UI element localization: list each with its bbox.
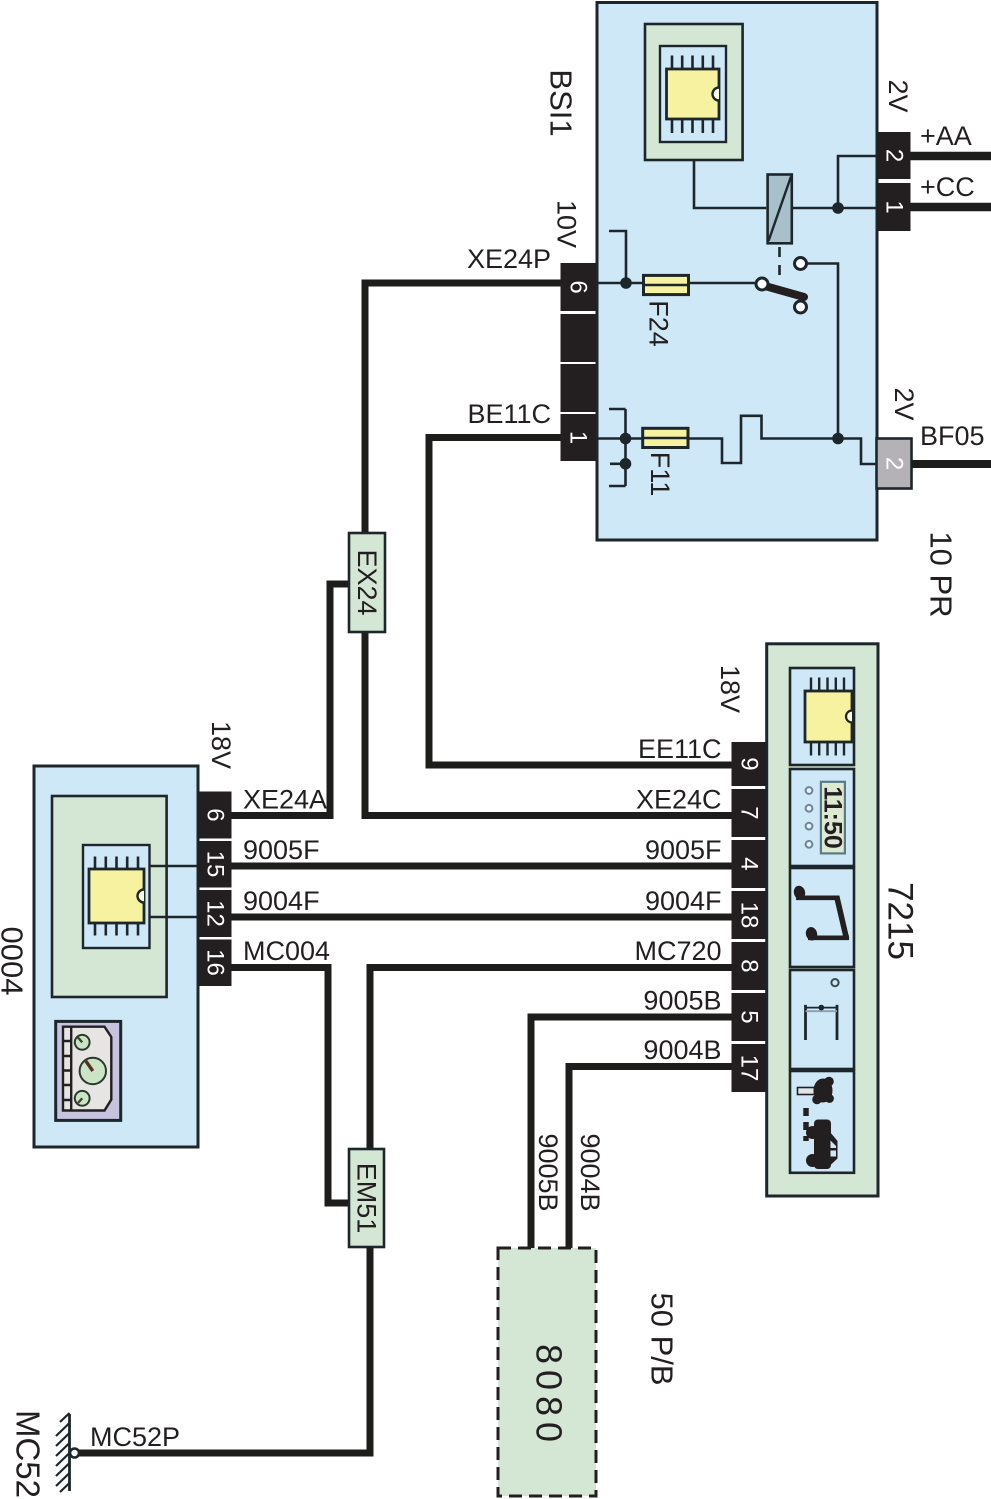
svg-text:11:50: 11:50 xyxy=(819,786,847,849)
wire 9005B xyxy=(531,1017,732,1248)
svg-text:17: 17 xyxy=(735,1055,762,1082)
wire F24 branch line xyxy=(596,282,756,285)
node on F24 line xyxy=(620,277,632,289)
svg-text:16: 16 xyxy=(201,949,228,976)
wire switch to BF05 node xyxy=(807,264,838,439)
svg-text:2V: 2V xyxy=(883,79,913,112)
svg-text:5: 5 xyxy=(735,1010,762,1023)
svg-text:XE24P: XE24P xyxy=(467,244,551,274)
svg-text:8080: 8080 xyxy=(529,1344,570,1448)
wire IC to pin 12 xyxy=(150,916,199,919)
svg-text:EM51: EM51 xyxy=(352,1163,382,1234)
svg-text:50 P/B: 50 P/B xyxy=(645,1292,680,1385)
node at switch/BF05 junction xyxy=(832,433,844,445)
svg-text:+AA: +AA xyxy=(920,121,972,151)
svg-text:4: 4 xyxy=(735,857,762,870)
ECU BSI1 body xyxy=(597,3,877,541)
svg-text:MC52: MC52 xyxy=(10,1410,47,1498)
svg-text:12: 12 xyxy=(201,900,228,927)
relay coil xyxy=(768,175,792,244)
IC chip inside BSI1 xyxy=(645,24,743,160)
wire 9004F xyxy=(232,914,732,921)
clock display icon xyxy=(790,769,854,866)
wire F11 line with staircase to BF05 xyxy=(596,416,877,464)
splice EX24 xyxy=(349,533,385,632)
svg-text:6: 6 xyxy=(565,280,592,293)
svg-text:2V: 2V xyxy=(889,387,919,420)
connector 2V block on BSI1 right xyxy=(877,132,911,231)
svg-text:9005F: 9005F xyxy=(243,835,320,865)
gauge icon inside 0004 xyxy=(56,1021,121,1120)
wire BF05 output xyxy=(912,460,991,468)
wire from IC to relay coil xyxy=(694,160,766,208)
svg-text:MC004: MC004 xyxy=(243,936,330,966)
fuse F24 xyxy=(644,275,689,294)
F11 tap stubs xyxy=(609,409,626,486)
wire MC720 to EM51 xyxy=(370,968,732,1150)
svg-text:MC720: MC720 xyxy=(634,936,721,966)
svg-text:BE11C: BE11C xyxy=(467,399,551,429)
fuse F11 xyxy=(643,428,688,447)
wire +AA xyxy=(911,152,991,161)
wire XE24A from EX24 to 0004 pin 6 xyxy=(232,584,350,816)
svg-text:2: 2 xyxy=(881,149,908,162)
node on F11 line xyxy=(620,433,632,445)
svg-text:F11: F11 xyxy=(645,452,675,497)
chime music note icon xyxy=(790,868,854,967)
F24 tap stub xyxy=(609,231,626,283)
svg-text:0004: 0004 xyxy=(0,927,30,996)
svg-text:+CC: +CC xyxy=(920,172,975,202)
svg-text:9005B: 9005B xyxy=(533,1133,563,1211)
svg-text:XE24A: XE24A xyxy=(243,785,327,815)
IC chip inside 7215 xyxy=(790,668,854,765)
svg-text:10 PR: 10 PR xyxy=(924,531,959,617)
splice EM51 xyxy=(349,1149,384,1247)
dashed actuation link xyxy=(778,247,781,281)
svg-text:EE11C: EE11C xyxy=(638,734,722,764)
svg-text:7215: 7215 xyxy=(881,882,920,960)
wire branch to pin 2 xyxy=(838,156,877,208)
svg-text:9004F: 9004F xyxy=(645,886,722,916)
svg-text:8: 8 xyxy=(735,959,762,972)
wire MC004 to EM51 xyxy=(232,968,350,1204)
IC chip inside 0004 xyxy=(52,796,167,997)
wire IC to pin 15 xyxy=(150,865,199,868)
svg-text:F24: F24 xyxy=(644,300,674,347)
svg-text:9004B: 9004B xyxy=(575,1133,605,1211)
wire 9004B xyxy=(569,1067,732,1249)
connector 18V block on 7215 xyxy=(732,742,767,1092)
switch contact xyxy=(756,258,807,314)
connector 10V block on BSI1 xyxy=(561,263,597,461)
wire MC52P to ground xyxy=(79,1247,370,1453)
svg-text:9005B: 9005B xyxy=(643,986,721,1016)
svg-text:9004B: 9004B xyxy=(643,1035,721,1065)
svg-text:15: 15 xyxy=(201,851,228,878)
wire XE24P xyxy=(365,283,561,533)
svg-text:6: 6 xyxy=(201,808,228,821)
wire 9005F xyxy=(232,863,732,870)
wire XE24C from EX24 to 7215 pin 7 xyxy=(365,632,732,816)
svg-text:9: 9 xyxy=(735,757,762,770)
remote control car icon xyxy=(790,1071,854,1173)
instrument cluster 0004 body xyxy=(34,766,198,1147)
svg-text:1: 1 xyxy=(565,431,592,444)
wire BE11C to EE11C xyxy=(429,438,732,766)
connector BF05 xyxy=(877,439,912,489)
wire relay to pin 1 node xyxy=(792,207,877,210)
svg-text:18V: 18V xyxy=(206,721,236,769)
multifunction display 7215 body xyxy=(767,644,878,1196)
svg-text:18V: 18V xyxy=(715,665,745,713)
svg-text:BSI1: BSI1 xyxy=(544,69,579,136)
svg-text:7: 7 xyxy=(735,806,762,819)
svg-text:2: 2 xyxy=(881,457,908,470)
connector assembly 8080 xyxy=(498,1248,596,1496)
svg-text:XE24C: XE24C xyxy=(636,785,722,815)
aerial icon xyxy=(790,970,854,1069)
svg-text:9004F: 9004F xyxy=(243,886,320,916)
svg-text:9005F: 9005F xyxy=(645,835,722,865)
connector 18V block on 0004 xyxy=(198,792,232,987)
ground MC52 xyxy=(56,1413,79,1492)
node on F11 tap xyxy=(620,458,632,470)
svg-text:BF05: BF05 xyxy=(920,421,985,451)
junction node at relay output xyxy=(832,202,844,214)
svg-text:MC52P: MC52P xyxy=(90,1422,180,1452)
wire +CC xyxy=(911,203,991,212)
svg-text:10V: 10V xyxy=(552,200,582,248)
svg-text:1: 1 xyxy=(881,200,908,213)
svg-text:EX24: EX24 xyxy=(352,549,382,615)
svg-text:18: 18 xyxy=(735,902,762,929)
